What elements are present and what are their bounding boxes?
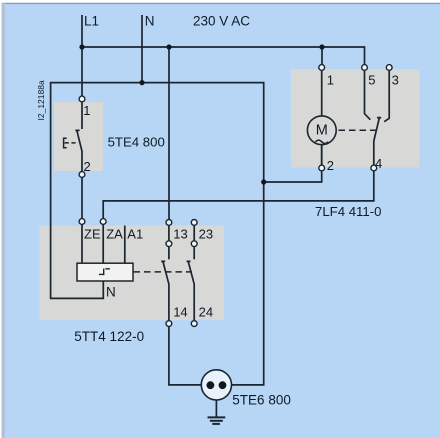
motor tilde xyxy=(315,140,328,143)
svg-text:L1: L1 xyxy=(84,14,99,29)
svg-text:M: M xyxy=(316,123,328,139)
terminal 23 xyxy=(191,220,197,226)
junction dot 13 branch xyxy=(166,44,171,49)
wire contact 3 lead xyxy=(384,70,389,121)
module box 5TT4 122-0 xyxy=(40,226,225,321)
svg-text:1: 1 xyxy=(83,103,90,118)
wire motor bottom stub xyxy=(321,145,323,166)
contact 23-24 blade xyxy=(187,261,195,320)
svg-text:ZA: ZA xyxy=(106,226,123,241)
terminal 2 5TE4 xyxy=(79,172,85,178)
terminal 14 xyxy=(166,321,172,327)
terminal 1 7LF4 xyxy=(319,65,325,71)
contact 13 link xyxy=(168,225,170,241)
svg-text:5TT4 122-0: 5TT4 122-0 xyxy=(74,329,144,344)
svg-text:I2_12188a: I2_12188a xyxy=(36,80,46,120)
svg-text:5TE6 800: 5TE6 800 xyxy=(232,393,291,408)
svg-text:3: 3 xyxy=(392,72,399,87)
svg-text:23: 23 xyxy=(199,226,213,241)
svg-text:N: N xyxy=(145,14,155,29)
relay coil box 5TT4 xyxy=(77,263,133,281)
wire motor T1 to motor xyxy=(321,70,323,116)
svg-text:13: 13 xyxy=(173,226,187,241)
svg-text:24: 24 xyxy=(199,304,213,319)
socket 5TE6 outline xyxy=(201,370,231,400)
wire 5TE4 to ZE xyxy=(81,177,83,218)
junction dot socket/motor T2 xyxy=(261,179,266,184)
contact 13-14 blade xyxy=(161,261,169,320)
dashed link relay to contacts xyxy=(134,271,193,273)
terminal 1 5TE4 xyxy=(79,96,85,102)
wire A1 into relay xyxy=(124,226,126,264)
wire L1 drop xyxy=(81,15,83,96)
svg-text:5TE4 800: 5TE4 800 xyxy=(108,134,165,149)
wire motor T1 xyxy=(321,47,323,65)
wire N bus / relay N / socket right xyxy=(51,83,264,385)
svg-text:230 V AC: 230 V AC xyxy=(193,13,250,28)
contact 23 link xyxy=(193,225,195,241)
terminal 4 7LF4 xyxy=(371,165,377,171)
wire motor T4 to ZA xyxy=(103,171,374,219)
svg-text:5: 5 xyxy=(368,72,375,87)
wire N drop xyxy=(141,15,143,83)
contact pole 13 xyxy=(166,241,172,247)
ground xyxy=(208,417,226,424)
svg-text:ZE: ZE xyxy=(84,226,101,241)
contact 23 lead xyxy=(193,247,195,260)
junction dot L1 xyxy=(79,44,84,49)
motor circle U1 xyxy=(307,116,336,145)
svg-text:2: 2 xyxy=(84,159,91,174)
switch 5TE4 upper lead xyxy=(81,102,83,129)
svg-text:N: N xyxy=(106,285,116,300)
socket pin left xyxy=(207,381,215,389)
wire L1 branch to contact 13 xyxy=(168,47,170,220)
wire motor to T2 xyxy=(321,145,323,165)
switch blade 5TE4 xyxy=(75,130,82,171)
contact pole 23 xyxy=(191,241,197,247)
switch blade 7LF4 xyxy=(374,118,381,166)
relay timer symbol xyxy=(99,269,110,275)
svg-text:A1: A1 xyxy=(127,226,143,241)
terminal ZE xyxy=(79,219,85,225)
svg-text:7LF4 411-0: 7LF4 411-0 xyxy=(315,204,381,219)
svg-text:2: 2 xyxy=(327,158,334,173)
terminal 5 7LF4 xyxy=(362,65,368,71)
terminal 24 xyxy=(191,321,197,327)
svg-text:14: 14 xyxy=(173,304,187,319)
junction dot N xyxy=(139,80,144,85)
dashed link motor to blade xyxy=(339,129,377,131)
wire motor T2 to N junction xyxy=(264,171,322,182)
terminal 13 xyxy=(166,220,172,226)
svg-text:1: 1 xyxy=(327,72,334,87)
module box 5TE4 800 xyxy=(54,102,103,171)
module box 7LF4 411-0 xyxy=(291,69,420,168)
actuator dashed link xyxy=(65,142,77,144)
wire L1 bus to contact 5 xyxy=(82,47,365,65)
contact 13 lead xyxy=(168,247,170,260)
svg-text:4: 4 xyxy=(375,156,382,171)
terminal 3 7LF4 xyxy=(386,65,392,71)
terminal 2 7LF4 xyxy=(319,165,325,171)
junction dot motor T1 xyxy=(319,44,324,49)
wire ZA into relay xyxy=(102,224,104,263)
wire 14 to socket xyxy=(169,327,202,385)
actuator 5TE4 xyxy=(64,138,67,147)
wire ZE into relay xyxy=(81,224,83,263)
terminal ZA xyxy=(100,219,106,225)
socket pin right xyxy=(219,381,227,389)
socket stem xyxy=(215,400,217,417)
wire contact 5 lead xyxy=(365,70,371,119)
